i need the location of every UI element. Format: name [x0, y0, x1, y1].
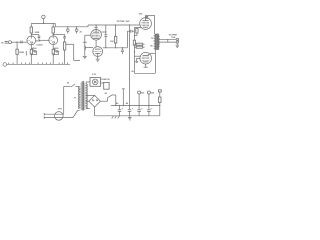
bleeder resistor R13 [158, 90, 161, 116]
resistor R2 plate V1 [30, 24, 32, 37]
node grid junction [16, 41, 17, 42]
node feedback [134, 51, 135, 52]
AC plug P1 [44, 112, 73, 121]
V3b cathode ground [96, 53, 100, 61]
switch S2 standby [108, 95, 116, 106]
terminal B1 [138, 91, 141, 106]
grid stopper element [83, 35, 87, 55]
node bus switch [115, 105, 116, 106]
feedback right vertical [154, 53, 156, 73]
V4 plate wire [146, 15, 155, 33]
capacitor C10 [118, 105, 122, 116]
node riser top [129, 24, 130, 25]
svg-text:FUSE 1A: FUSE 1A [101, 78, 110, 81]
tube V3b [93, 47, 103, 57]
wire plug to switch [64, 87, 71, 115]
svg-text:SUP: SUP [126, 21, 131, 23]
power transformer T1 [80, 83, 85, 111]
capacitor C5 filter [66, 26, 69, 33]
svg-text:IN: IN [1, 42, 4, 44]
svg-text:40: 40 [116, 102, 119, 105]
wire jack to V1 grid [13, 41, 27, 43]
capacitor C4 bypass V2 [53, 49, 58, 55]
svg-text:COIL: COIL [171, 37, 176, 39]
svg-text:TO PWR: TO PWR [117, 21, 125, 23]
svg-text:40: 40 [126, 102, 129, 105]
top cap connector V4 [146, 17, 148, 19]
tube V1 [27, 36, 36, 48]
terminal bar [167, 39, 169, 42]
capacitor C13 [147, 105, 151, 116]
switch S1 [71, 84, 80, 87]
wire stub left of V1 [25, 51, 27, 56]
svg-text:20: 20 [80, 32, 83, 34]
capacitor C3 bypass V1 [31, 49, 36, 55]
B plus bus [111, 105, 160, 107]
feedback bottom wire [134, 72, 155, 74]
svg-text:500K: 500K [19, 52, 24, 54]
svg-text:220K: 220K [35, 32, 40, 34]
resistor R14 on feedback line [133, 40, 135, 45]
svg-text:117V: 117V [58, 109, 63, 111]
tube V4 output [140, 18, 152, 30]
chassis ground symbol [112, 116, 120, 119]
svg-text:560K: 560K [36, 41, 41, 43]
tube V3 [91, 30, 102, 41]
wire V3a cathode to V3b [95, 40, 97, 47]
svg-text:+: + [132, 109, 134, 111]
capacitor C9 [121, 47, 124, 54]
cathode wire V5 [135, 58, 140, 62]
svg-text:S1: S1 [67, 83, 70, 85]
resistor R11 [134, 43, 144, 45]
B+ riser [129, 25, 131, 106]
ground bus preamp [7, 63, 70, 65]
grid wire V5 [134, 55, 141, 57]
resistor R6 cathode V2 [52, 48, 54, 65]
feedback line vertical [133, 28, 135, 74]
ground bus PSU [114, 115, 160, 117]
svg-text:5K: 5K [150, 45, 153, 47]
B+ rail middle [88, 24, 141, 26]
speaker wires [159, 39, 177, 42]
capacitor C11 [128, 105, 132, 116]
input jack J1 [5, 41, 13, 44]
V3b plate line [103, 31, 128, 48]
V3 plate wire [101, 25, 105, 32]
capacitor C12 [137, 105, 141, 116]
B+ terminal [42, 15, 45, 23]
terminal B2 [147, 91, 150, 106]
wire winding to lamp [86, 82, 90, 84]
chassis ground center [128, 116, 132, 120]
B+ rail preamp [31, 23, 55, 25]
wiper wire [66, 44, 80, 60]
resistor R12 [134, 46, 144, 48]
ground symbol [83, 55, 87, 59]
svg-text:325: 325 [141, 93, 145, 95]
coupling capacitor C7 [127, 30, 134, 33]
resistor R8 [114, 24, 116, 48]
bridge rectifier D1 [89, 95, 101, 107]
B+ rail 2 [55, 24, 88, 27]
V3 grid wire [85, 34, 91, 36]
top cap V3 [94, 25, 97, 30]
svg-text:6V6: 6V6 [139, 13, 143, 15]
tube V2 [49, 36, 58, 48]
pilot lamp box [90, 78, 101, 87]
svg-text:+: + [151, 109, 153, 111]
ground speaker [176, 43, 180, 47]
node rail [43, 23, 44, 24]
heater drop line [122, 89, 125, 106]
svg-text:T1: T1 [74, 98, 77, 100]
V5 bottom stem [144, 64, 148, 67]
speaker terminals [176, 38, 178, 43]
resistor R3 cathode V1 [30, 48, 32, 65]
V5 plate wire [148, 50, 156, 55]
resistor R5 plate V2 [52, 24, 54, 36]
svg-text:325: 325 [151, 93, 155, 95]
V3b grid wire [85, 47, 93, 49]
heater tap stub [86, 108, 90, 110]
wire bridge plus to switch [100, 98, 107, 102]
resistor R1 grid leak [16, 42, 18, 64]
capacitor C1 [21, 41, 22, 44]
wire bridge minus [95, 107, 114, 116]
svg-text:+: + [122, 109, 124, 111]
svg-text:.02 400: .02 400 [36, 43, 43, 46]
svg-text:S2: S2 [105, 93, 108, 95]
wires transformer to bridge [86, 95, 94, 101]
grid wire V4 [134, 27, 141, 29]
fuse box [101, 82, 110, 89]
switch S1 pole2 [73, 111, 80, 118]
capacitor C6 filter [75, 26, 78, 33]
svg-text:+: + [141, 109, 143, 111]
capacitor C14 coupling V2 out [53, 34, 66, 42]
tube V5 output [140, 52, 152, 64]
resistor R9b grid V4 [134, 28, 138, 36]
capacitor C2 coupling [31, 35, 49, 41]
output transformer T2 [155, 34, 160, 50]
capacitor screen bypass [104, 31, 107, 48]
svg-text:6.3V: 6.3V [92, 74, 97, 76]
ground terminal circle [3, 63, 7, 67]
svg-text:10K: 10K [110, 41, 114, 43]
volume pot R7 [63, 42, 65, 64]
